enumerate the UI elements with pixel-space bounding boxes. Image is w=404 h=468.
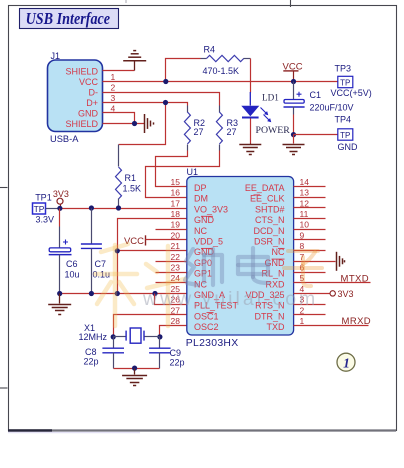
frame bottom left dark segment [8, 429, 52, 431]
wire OSC1 pin27 to crystal [114, 315, 187, 337]
node C1/TP4 junction [291, 132, 296, 137]
lead R2 top [187, 106, 189, 113]
svg-text:TP: TP [340, 79, 350, 88]
svg-text:22p: 22p [84, 356, 99, 366]
ground earth (crystal) [122, 376, 147, 386]
watermark [95, 244, 322, 326]
svg-text:1.5K: 1.5K [123, 183, 142, 193]
VCC port bar [283, 70, 298, 72]
svg-text:www.yuilai.com: www.yuilai.com [142, 288, 318, 310]
ground stem (LED) [250, 144, 252, 145]
ground earth (main GND) [48, 305, 71, 315]
U1 pin 8 stub [294, 250, 326, 252]
svg-text:SHIELD: SHIELD [65, 119, 98, 129]
svg-text:470-1.5K: 470-1.5K [203, 66, 240, 76]
svg-text:EE_DATA: EE_DATA [245, 183, 285, 193]
wire D+ to R2 top [103, 103, 188, 106]
svg-text:20: 20 [171, 230, 181, 240]
wire pin7 GND to earth [294, 261, 336, 263]
node C6 bottom junction [57, 291, 62, 296]
svg-text:J1: J1 [51, 51, 61, 61]
svg-text:17: 17 [171, 198, 181, 208]
ground earth (LED) [239, 145, 261, 155]
svg-text:13: 13 [300, 188, 310, 198]
connector J1 USB-A [48, 60, 103, 132]
lead C1 top [293, 82, 295, 100]
svg-text:VO_3V3: VO_3V3 [194, 204, 228, 214]
svg-text:D+: D+ [86, 98, 98, 108]
lead R1 bottom [118, 199, 120, 209]
frame bottom edge [8, 429, 396, 431]
wire C1 to gnd node [293, 115, 295, 135]
ground earth (top shield, bars upward) [123, 51, 146, 61]
wire pin4 VDD_325 to 3V3 [294, 293, 331, 295]
svg-text:D-: D- [89, 88, 99, 98]
svg-text:NC: NC [194, 226, 207, 236]
net node circle 3V3 [57, 198, 63, 204]
lead X1 left [114, 336, 127, 338]
node J1 gnd junction [132, 121, 137, 126]
wire J1 GND pin4 down [103, 113, 135, 124]
svg-text:19: 19 [171, 220, 181, 230]
svg-text:TP: TP [34, 204, 45, 214]
lead R4 right [244, 58, 251, 60]
lead R4 left [201, 58, 207, 60]
U1 pin 22 stub [156, 261, 187, 263]
wire pin26 PLL_TEST to bus [155, 294, 187, 305]
node 3V3/C6 junction [57, 206, 62, 211]
LED arrows [261, 108, 272, 123]
U1 pin 13 stub [294, 197, 326, 199]
lead TP1 [46, 208, 60, 210]
svg-text:MTXD: MTXD [341, 273, 370, 284]
frame tick left 1 [0, 187, 8, 189]
svg-text:15: 15 [171, 177, 181, 187]
lead C1 bottom [293, 107, 295, 115]
resistor R2 [184, 112, 190, 144]
VCC port bar (pin20) [145, 235, 147, 245]
svg-text:1: 1 [111, 72, 116, 82]
svg-text:3V3: 3V3 [338, 289, 354, 299]
wire J1 shield top [103, 70, 135, 72]
svg-text:TP: TP [340, 131, 350, 140]
ground earth (C1) [283, 145, 305, 155]
lead X1 right [145, 336, 160, 338]
ground (J1 shield/GND, side bars) [145, 114, 154, 133]
svg-text:GND: GND [78, 109, 99, 119]
wire crystal caps gnd bus [114, 368, 160, 370]
U1 pin 23 stub [156, 272, 187, 274]
svg-text:PL2303HX: PL2303HX [186, 338, 239, 349]
svg-text:OSC2: OSC2 [194, 322, 219, 332]
node VCC rail junction [291, 79, 296, 84]
lead R3 bottom [219, 145, 221, 151]
wire J1 shield bottom to earth [103, 123, 145, 125]
svg-text:R4: R4 [204, 45, 216, 55]
svg-text:18: 18 [171, 209, 181, 219]
3V3 node stem [60, 205, 62, 209]
ground stem (top shield) [134, 61, 136, 71]
node R1 bottom junction [116, 205, 121, 210]
svg-text:2: 2 [111, 83, 116, 93]
resistor R3 [216, 112, 222, 144]
wire pin1 TXD / net MRXD [294, 325, 369, 327]
svg-text:C9: C9 [170, 348, 182, 358]
svg-text:21: 21 [171, 241, 181, 251]
U1 pin 11 stub [294, 218, 326, 220]
node crystal left junction [111, 334, 116, 339]
wire GND_A bus pin25 [60, 293, 187, 295]
svg-text:R1: R1 [125, 173, 137, 183]
node crystal right junction [157, 334, 162, 339]
svg-text:C8: C8 [85, 347, 97, 357]
ground stem (main) [59, 294, 61, 304]
lead C8 bottom [113, 353, 115, 369]
frame bottom lavender stripe [8, 432, 140, 434]
wire OSC2 pin28 to crystal [160, 326, 187, 337]
node D+/R1 junction [163, 100, 168, 105]
U1 pin 6 stub [294, 272, 326, 274]
U1 pin 24 stub [156, 282, 187, 284]
svg-text:LD1: LD1 [262, 93, 279, 103]
svg-text:C7: C7 [95, 259, 107, 269]
resistor R1 [116, 167, 122, 199]
svg-text:3.3V: 3.3V [36, 214, 55, 224]
wire VCC to pin20 [146, 239, 187, 241]
title block USB Interface [20, 9, 119, 29]
U1 pin 10 stub [294, 229, 326, 231]
U1 pin 12 stub [294, 207, 326, 209]
ground stem (crystal) [134, 369, 136, 375]
svg-text:TP3: TP3 [335, 64, 352, 74]
lead C7 top [91, 209, 93, 245]
U1 pin 2 stub [294, 314, 326, 316]
node crystal gnd junction [132, 366, 137, 371]
wire pin18 GND down [118, 219, 187, 294]
U1 pin 19 stub [156, 229, 187, 231]
wire VCC 5V rail (J1 pin1 to TP3) [103, 81, 338, 83]
wire D+ to R1 top [119, 103, 166, 145]
svg-text:C6: C6 [66, 259, 78, 269]
svg-text:SHTD#: SHTD# [255, 204, 285, 214]
lead C9 bottom [159, 353, 161, 369]
svg-text:U1: U1 [187, 167, 199, 177]
svg-text:VCC: VCC [79, 77, 99, 87]
lead R3 top [219, 106, 221, 113]
svg-text:USB-A: USB-A [50, 134, 79, 144]
frame tick top 2 [125, 0, 127, 3]
wire down to ground [293, 135, 295, 144]
node C7 top junction [89, 205, 94, 210]
svg-text:GND: GND [338, 142, 359, 152]
net node circle 3V3 (pin4) [330, 291, 335, 296]
svg-text:11: 11 [300, 209, 309, 219]
svg-text:28: 28 [171, 316, 181, 326]
svg-text:CTS_N: CTS_N [255, 215, 285, 225]
node VCC/R4 junction [163, 79, 168, 84]
wire pin21 GND [118, 250, 187, 252]
svg-text:POWER: POWER [256, 125, 291, 136]
svg-text:C1: C1 [310, 90, 322, 100]
node GND junction pin21 [115, 248, 120, 253]
frame tick left 2 [0, 387, 8, 389]
wire 3V3 rail to pin17 [60, 208, 187, 210]
svg-text:DCD_N: DCD_N [253, 226, 284, 236]
svg-text:1: 1 [343, 356, 350, 371]
svg-text:TP1: TP1 [35, 193, 52, 203]
svg-text:DM: DM [194, 194, 208, 204]
svg-text:SHIELD: SHIELD [65, 67, 98, 77]
lead R2 bottom [187, 145, 189, 151]
U1 pin 9 stub [294, 239, 326, 241]
svg-text:16: 16 [171, 188, 181, 198]
svg-text:TXD: TXD [267, 322, 286, 332]
wire pin5 RXD / net MTXD [294, 282, 371, 284]
svg-text:27: 27 [227, 127, 237, 137]
frame tick top [290, 0, 292, 7]
svg-text:DSR_N: DSR_N [254, 237, 285, 247]
svg-text:3V3: 3V3 [53, 189, 69, 199]
lead C9 top [159, 337, 161, 349]
U1 pin 3 stub [294, 304, 326, 306]
test point TP1 [33, 203, 46, 214]
LED LD1 [241, 92, 259, 118]
svg-text:3: 3 [111, 93, 116, 103]
wire C6 top [59, 209, 61, 227]
lead C7 bottom [91, 249, 93, 294]
node pin26 junction [152, 291, 157, 296]
svg-text:22p: 22p [170, 357, 185, 367]
lead C8 top [113, 337, 115, 349]
node GND vertical junction [115, 291, 120, 296]
svg-text:VCC(+5V): VCC(+5V) [331, 88, 372, 98]
svg-text:USB Interface: USB Interface [26, 9, 111, 28]
lead C6 bottom [59, 255, 61, 294]
svg-text:9: 9 [300, 230, 305, 240]
svg-text:VDD_5: VDD_5 [194, 237, 223, 247]
lead C6 top [59, 227, 61, 249]
wire to TP4 [294, 134, 338, 136]
wire R2 bottom to DP pin15 [156, 151, 188, 187]
resistor R4 [207, 55, 244, 61]
svg-text:27: 27 [194, 127, 204, 137]
svg-text:DP: DP [194, 183, 207, 193]
sheet number 1 [337, 353, 355, 371]
wire LED cathode to ground [250, 119, 252, 144]
svg-text:OSC1: OSC1 [194, 311, 219, 321]
svg-text:10u: 10u [65, 269, 80, 279]
svg-text:14: 14 [300, 177, 310, 187]
svg-text:12: 12 [300, 198, 310, 208]
svg-text:12MHz: 12MHz [79, 332, 108, 342]
svg-text:TP4: TP4 [335, 115, 352, 125]
svg-text:10: 10 [300, 220, 310, 230]
wire D- to R3 top [103, 93, 220, 106]
svg-text:MRXD: MRXD [342, 316, 372, 327]
svg-text:22: 22 [171, 252, 181, 262]
svg-text:1: 1 [300, 316, 305, 326]
wire VCC rail up to R4 [166, 59, 201, 82]
ground (pin7, side bars) [337, 252, 345, 271]
svg-text:220uF/10V: 220uF/10V [310, 103, 354, 113]
svg-text:DTR_N: DTR_N [254, 311, 284, 321]
op-amp/IC U1 PL2303HX body [187, 177, 294, 336]
svg-text:23: 23 [171, 263, 181, 273]
U1 pin 14 stub [294, 186, 326, 188]
lead R1 top [118, 145, 120, 167]
node C7 bottom junction [89, 291, 94, 296]
wire R3 bottom to DM pin16 [146, 151, 220, 198]
wire R4 to LED anode [250, 59, 252, 93]
